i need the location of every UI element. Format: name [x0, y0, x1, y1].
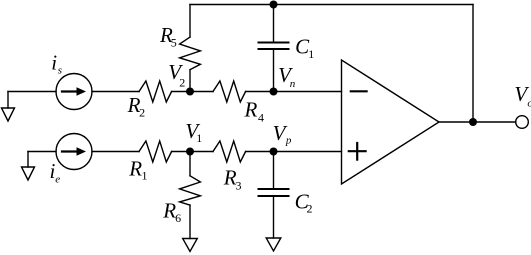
svg-text:o: o	[527, 98, 531, 110]
svg-text:3: 3	[236, 178, 242, 192]
node Vp junction dot	[270, 148, 278, 156]
svg-text:6: 6	[175, 211, 181, 225]
capacitor C1	[259, 5, 289, 92]
op-amp U1	[342, 60, 440, 184]
wire lower row left of source	[28, 151, 56, 153]
svg-text:1: 1	[142, 169, 148, 183]
svg-text:R: R	[244, 97, 258, 121]
wire R1 to R3 through node V1	[172, 151, 213, 153]
ground (below C2)	[266, 238, 281, 251]
label C_2	[295, 190, 313, 216]
wire source to R2	[92, 91, 139, 93]
label V_2	[168, 60, 185, 89]
node V1 junction dot	[186, 148, 194, 156]
svg-text:2: 2	[179, 75, 185, 89]
node output junction dot	[469, 118, 477, 126]
ground (left upper)	[2, 92, 15, 122]
label R_3	[223, 166, 242, 193]
resistor R2	[139, 81, 172, 102]
resistor R3	[213, 141, 246, 162]
label i_e	[50, 159, 61, 185]
svg-text:1: 1	[196, 131, 202, 145]
node top junction dot	[270, 1, 278, 9]
svg-text:p: p	[285, 135, 292, 147]
wire top feedback horizontal	[190, 4, 473, 6]
label R_5	[159, 23, 177, 50]
label V_o	[514, 82, 531, 110]
svg-text:e: e	[55, 173, 60, 185]
ground (left lower)	[22, 152, 35, 181]
node Vn junction dot	[270, 88, 278, 96]
wire source to R1	[92, 151, 139, 153]
current source i_e	[56, 134, 92, 170]
resistor R1	[139, 141, 172, 162]
current source i_s	[56, 74, 92, 110]
svg-text:s: s	[58, 65, 62, 77]
resistor R4	[213, 81, 246, 102]
wire R4 to op-amp minus input	[246, 91, 342, 93]
label R_1	[128, 156, 147, 182]
resistor R5 vertical	[180, 5, 201, 92]
wire R2 to R4 through node V2	[172, 91, 213, 93]
svg-text:2: 2	[307, 202, 313, 216]
resistor R6 vertical	[180, 152, 201, 239]
ground (below R6)	[183, 239, 198, 252]
label R_4	[244, 97, 265, 124]
wire op-amp output	[439, 121, 516, 123]
label V_p	[273, 121, 292, 147]
node V2 junction dot	[186, 88, 194, 96]
svg-text:i: i	[51, 50, 57, 74]
svg-text:1: 1	[308, 47, 314, 61]
svg-text:2: 2	[139, 105, 145, 119]
label V_n	[278, 63, 296, 90]
capacitor C2	[259, 152, 289, 239]
svg-text:n: n	[290, 78, 296, 90]
svg-text:R: R	[128, 156, 142, 180]
svg-text:5: 5	[171, 36, 177, 50]
label C_1	[295, 35, 314, 62]
wire feedback vertical	[472, 5, 474, 123]
svg-text:4: 4	[258, 111, 264, 125]
wire upper row left of source	[8, 91, 56, 93]
label i_s	[51, 50, 62, 76]
label R_6	[162, 199, 181, 226]
label V_1	[185, 119, 202, 145]
wire R3 to op-amp plus input	[246, 151, 342, 153]
terminal Vo open circle	[516, 116, 529, 129]
label R_2	[127, 93, 146, 119]
